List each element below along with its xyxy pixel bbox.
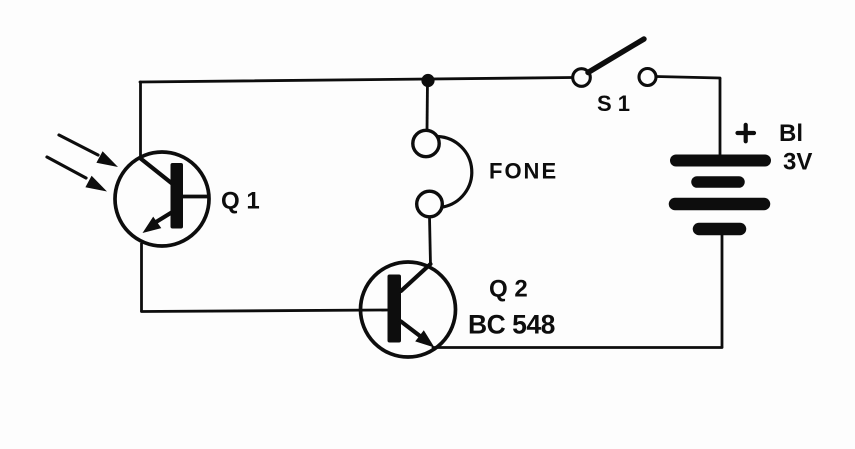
earphone FONE — [413, 130, 472, 217]
light arrow 2 into Q1 — [47, 157, 107, 192]
wire right vertical top (to battery plus) — [719, 78, 722, 157]
svg-text:FONE: FONE — [489, 159, 558, 184]
battery plus sign — [738, 125, 755, 142]
wire FONE bottom to Q2 collector — [430, 217, 431, 266]
svg-text:BC 548: BC 548 — [468, 310, 555, 340]
svg-text:Q 1: Q 1 — [221, 188, 260, 215]
svg-text:Bl: Bl — [779, 120, 803, 147]
svg-text:Q 2: Q 2 — [489, 276, 528, 303]
svg-text:3V: 3V — [783, 149, 812, 176]
wire left vertical (top corner down to Q1) — [139, 82, 142, 158]
wire bottom-left horizontal (Q1 emitter to Q2 base) — [142, 310, 389, 312]
transistor Q1 (phototransistor) — [115, 152, 209, 246]
battery B1 — [675, 161, 765, 230]
wire top horizontal (Q1 collector to S1) — [140, 78, 573, 83]
wire S1 to top-right corner — [656, 77, 720, 79]
wire junction to FONE top — [426, 81, 429, 132]
wire Q1 emitter down left side — [140, 243, 143, 312]
node junction dot — [421, 74, 434, 87]
switch S1 — [573, 39, 656, 86]
wire right vertical bottom (battery minus) — [721, 233, 724, 348]
light arrow 1 into Q1 — [59, 135, 118, 167]
svg-text:S 1: S 1 — [597, 91, 630, 116]
wire bottom horizontal (Q2 emitter to battery minus) — [433, 346, 722, 349]
transistor Q2 — [361, 262, 456, 357]
